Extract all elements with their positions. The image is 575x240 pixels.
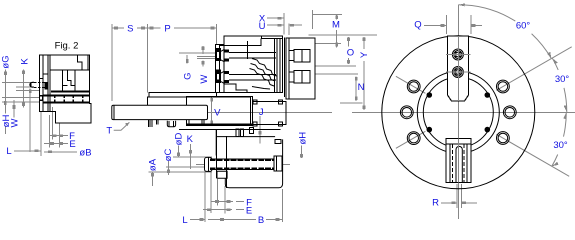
svg-text:30°: 30° — [553, 140, 568, 151]
foot under V block — [249, 128, 253, 134]
thread lines right — [274, 38, 276, 92]
bottom extension lines — [204, 171, 206, 222]
body floor steps — [224, 84, 247, 93]
slot screw centerlines — [446, 54, 471, 56]
dimension øH (cylinder) — [301, 146, 303, 159]
Fig.2 rail head — [39, 95, 43, 101]
extension lines rod — [173, 156, 212, 158]
adapter plate line — [179, 129, 281, 131]
svg-text:E: E — [69, 139, 75, 150]
rod head — [274, 156, 282, 171]
bolt hole -30deg — [497, 132, 510, 145]
svg-text:øG: øG — [1, 55, 12, 68]
slot screw 2 — [452, 67, 463, 78]
dimension G — [179, 52, 215, 54]
slot screw 1 — [452, 49, 463, 60]
dimension M — [312, 10, 314, 29]
lower body — [216, 130, 282, 188]
dimension J — [259, 116, 261, 144]
dimension O — [315, 65, 356, 67]
svg-text:60°: 60° — [516, 20, 531, 31]
svg-text:P: P — [164, 23, 170, 34]
body inner top — [219, 38, 260, 45]
dimension P — [147, 27, 160, 29]
top slot — [448, 36, 469, 101]
dimension L (Fig.2) — [14, 150, 41, 152]
svg-text:Fig. 2: Fig. 2 — [55, 41, 79, 52]
svg-text:øB: øB — [79, 147, 91, 158]
angle arc 30deg lower — [564, 112, 567, 136]
body inner vertical — [247, 41, 249, 59]
dimension B — [208, 219, 256, 221]
dimension N — [315, 73, 358, 75]
spacer plate — [283, 38, 285, 98]
bottom slot centerline — [457, 139, 459, 183]
svg-text:L: L — [6, 146, 11, 157]
pins under shaft — [147, 120, 149, 128]
svg-text:V: V — [214, 108, 221, 119]
dimension øA — [152, 172, 154, 186]
bolt 1 shaft lines — [229, 52, 276, 54]
dimension W (Fig.2 left) — [29, 89, 31, 153]
bolt 2 head — [216, 70, 221, 83]
radial centerline 30deg — [496, 47, 571, 91]
screw recess 2 — [294, 71, 310, 84]
small screw lower-right — [485, 127, 490, 132]
svg-text:øC: øC — [163, 149, 174, 162]
radial centerline 210deg — [396, 131, 426, 148]
leader scroll — [259, 78, 261, 90]
bolt hole 210deg — [407, 132, 420, 145]
svg-text:E: E — [246, 205, 252, 216]
centerline vertical — [457, 5, 459, 219]
bolt 2 tube section — [225, 71, 230, 74]
bolt 2 cone — [221, 71, 225, 84]
dimension U — [267, 24, 284, 26]
Fig.2 body outline — [40, 55, 91, 123]
svg-text:S: S — [127, 23, 133, 34]
dimension K (Fig.2 left) — [23, 70, 25, 108]
cup under shaft — [167, 121, 175, 127]
dimension øC — [168, 161, 170, 175]
bolt 1 cone — [221, 49, 225, 62]
rod centerline — [196, 163, 290, 165]
svg-text:W: W — [199, 75, 210, 84]
svg-text:N: N — [358, 82, 365, 93]
svg-text:øA: øA — [148, 158, 159, 171]
rod cap — [205, 157, 213, 171]
svg-text:R: R — [432, 198, 439, 209]
dimension S — [112, 27, 124, 29]
svg-text:Y: Y — [359, 51, 370, 58]
angle arc 60deg — [458, 5, 515, 21]
bottom slot arch — [456, 146, 462, 182]
svg-text:B: B — [258, 215, 264, 225]
dimension øG (Fig.2 left) — [4, 70, 6, 112]
svg-text:M: M — [332, 20, 340, 31]
leader T — [114, 122, 130, 130]
bolt 1 head — [216, 48, 221, 61]
bottom slot — [446, 139, 471, 183]
svg-text:U: U — [259, 21, 266, 32]
svg-text:K: K — [187, 134, 194, 145]
chuck inner circle B — [423, 77, 493, 147]
bolt 1 tube section — [225, 49, 230, 52]
bolt hole 180deg — [400, 106, 413, 119]
svg-text:T: T — [106, 126, 112, 137]
dimension W (cylinder) — [197, 56, 216, 58]
svg-text:J: J — [259, 107, 264, 118]
extension line plate upper — [315, 43, 341, 45]
svg-text:K: K — [20, 58, 31, 65]
svg-text:Q: Q — [414, 20, 421, 31]
J block — [252, 102, 285, 125]
svg-text:øH: øH — [298, 132, 309, 145]
radial centerline -30deg — [496, 134, 569, 176]
Fig.2 rail top lines — [51, 90, 89, 92]
chuck outer circle — [382, 36, 535, 189]
draw bar shaft — [112, 105, 208, 119]
screw recess 1 — [294, 49, 310, 62]
svg-text:W: W — [9, 118, 20, 127]
cylinder V block — [187, 97, 253, 126]
cylinder body outline — [215, 36, 282, 93]
rod bands — [210, 159, 274, 161]
Fig.2 inner horizontal — [50, 69, 89, 71]
chuck inner circle A — [417, 71, 499, 153]
dimension E (cylinder) — [203, 209, 232, 211]
svg-text:30°: 30° — [555, 74, 570, 85]
radial centerline 150deg — [396, 76, 426, 93]
Fig.2 screw rail bands — [43, 94, 89, 96]
dimension F (Fig.2) — [50, 135, 68, 137]
keys — [236, 129, 239, 136]
lower body edges crossing rod — [215, 130, 217, 179]
svg-text:L: L — [182, 215, 187, 225]
step block on shaft — [147, 97, 250, 105]
dimension øB (Fig.2) — [44, 151, 77, 153]
svg-text:O: O — [347, 48, 354, 59]
scroll cam curves — [252, 59, 277, 77]
dimension F (cylinder) — [211, 201, 233, 203]
Fig.2 inner verticals — [42, 55, 44, 112]
Fig.2 top-right notch — [77, 55, 82, 70]
small block right — [275, 139, 281, 143]
dimension Y — [363, 37, 365, 49]
dimension V — [211, 97, 213, 126]
centerline horizontal — [205, 111, 332, 113]
svg-text:G: G — [183, 73, 194, 80]
dimension E (Fig.2) — [44, 143, 68, 145]
dimension X — [267, 17, 284, 19]
svg-text:øD: øD — [174, 133, 185, 146]
dimension Q — [424, 24, 447, 26]
dimension L (cylinder) — [190, 219, 205, 221]
bolt hole 0deg — [503, 106, 516, 119]
bolt hole 30deg — [497, 80, 510, 93]
front plate — [286, 38, 315, 99]
dimension K (cylinder) — [190, 144, 192, 169]
Fig.2 key block — [63, 70, 76, 91]
bolt hole 150deg — [407, 80, 420, 93]
Fig.2 extension lines — [2, 82, 34, 84]
angle arc 30deg upper — [552, 58, 558, 70]
dimension R — [456, 184, 458, 208]
small screw lower-left — [427, 127, 432, 132]
small screw upper-left — [427, 93, 432, 98]
dimension øD — [178, 146, 180, 158]
pins inside V block — [188, 120, 190, 125]
dimension S extension lines — [111, 24, 113, 101]
Fig.2 bolt stub — [29, 82, 34, 88]
bolt 2 shaft lines — [229, 73, 276, 75]
small screw upper-right — [485, 93, 490, 98]
body left cap verticals — [218, 45, 220, 93]
